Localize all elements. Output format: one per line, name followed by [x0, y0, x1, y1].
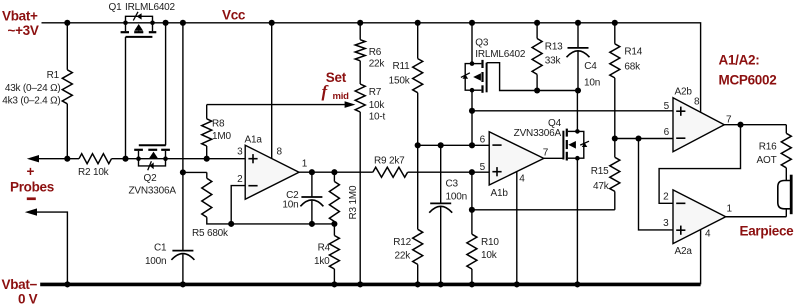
wire A1b pin7 to Q4 gate: [544, 157, 564, 159]
wire A1a pin8 to Vcc rail: [271, 23, 273, 159]
svg-text:10-t: 10-t: [369, 111, 386, 122]
svg-text:4: 4: [519, 173, 525, 184]
earpiece (speaker): [740, 168, 795, 239]
svg-text:1k0: 1k0: [314, 256, 330, 267]
junction R3 bottom / R4 top: [331, 221, 337, 227]
wire A2a pin4 to ground rail: [700, 229, 702, 284]
junction R7 / ground rail: [357, 281, 363, 287]
wire A2b pin6 line: [615, 138, 673, 140]
svg-text:Earpiece: Earpiece: [740, 224, 795, 239]
capacitor C1 100n: [145, 23, 194, 285]
svg-text:4: 4: [705, 229, 711, 240]
svg-text:1: 1: [302, 159, 308, 170]
junction R14 / Vcc rail: [612, 20, 618, 26]
svg-text:10k: 10k: [481, 250, 498, 261]
resistor R12 22k: [393, 145, 422, 284]
resistor R6 22k: [355, 23, 385, 70]
svg-text:Vbat−: Vbat−: [2, 277, 38, 292]
svg-text:1M0: 1M0: [212, 131, 231, 142]
junction C1 / ground rail: [180, 281, 186, 287]
capacitor C3 100n: [429, 145, 467, 284]
junction C2 top / output line: [309, 169, 315, 175]
svg-text:5: 5: [664, 101, 670, 112]
svg-text:R4: R4: [318, 243, 331, 254]
svg-text:22k: 22k: [394, 251, 411, 262]
svg-text:3: 3: [237, 147, 243, 158]
wire Q2 gate up to Vcc rail: [165, 23, 167, 146]
svg-text:33k: 33k: [545, 55, 562, 66]
wire feedback A2b output to A2a pin2: [659, 125, 740, 204]
svg-text:R15: R15: [591, 166, 609, 177]
svg-text:10n: 10n: [282, 200, 298, 211]
wire A1a output line: [299, 171, 373, 173]
svg-text:150k: 150k: [389, 76, 411, 87]
svg-text:22k: 22k: [369, 59, 386, 70]
svg-text:Probes: Probes: [10, 179, 54, 194]
wire Vcc top rail: [42, 23, 701, 113]
resistor R8 1M0: [202, 105, 232, 159]
svg-text:7: 7: [726, 114, 732, 125]
svg-text:7: 7: [543, 147, 549, 158]
svg-text:IRLML6402: IRLML6402: [475, 49, 526, 60]
svg-text:IRLML6402: IRLML6402: [125, 2, 176, 13]
svg-text:A2a: A2a: [675, 246, 693, 257]
wire R10/R15 node line: [472, 209, 615, 211]
svg-text:R6: R6: [369, 47, 382, 58]
svg-text:8: 8: [694, 96, 700, 107]
junction R1 bottom / probe line: [64, 156, 70, 162]
svg-text:R9 2k7: R9 2k7: [374, 156, 405, 167]
svg-text:R10: R10: [481, 237, 499, 248]
svg-text:R11: R11: [392, 61, 410, 72]
potentiometer R7 10k 10-turn: [355, 61, 385, 285]
svg-text:R8: R8: [212, 119, 225, 130]
wire R9 to A1b pin5: [408, 171, 490, 173]
svg-text:R1: R1: [47, 70, 60, 81]
junction Q4 / ground rail: [574, 281, 580, 287]
transistor Q4 ZVN3306A (N-MOSFET): [514, 118, 589, 160]
svg-text:2: 2: [663, 192, 669, 203]
junction R1 top / Vcc rail: [64, 20, 70, 26]
wire pin2 node riser to A1a pin2: [231, 186, 245, 224]
svg-text:C1: C1: [154, 242, 167, 253]
svg-text:R12: R12: [393, 237, 411, 248]
wire A1b pin6 line: [418, 144, 490, 146]
svg-text:1: 1: [727, 203, 733, 214]
junction R5 tee on Vcc drop wire: [180, 169, 186, 175]
svg-text:A1a: A1a: [245, 135, 263, 146]
svg-text:+: +: [27, 164, 35, 179]
junction R13 / Vcc rail: [534, 20, 540, 26]
transistor Q1 IRLML6402 (P-MOSFET): [109, 2, 176, 37]
svg-text:A1b: A1b: [491, 188, 509, 199]
junction A2a pin3 riser / pin6 line: [635, 135, 641, 141]
junction C4 / Vcc rail: [575, 20, 581, 26]
resistor R5 680k: [183, 172, 231, 239]
junction A1a pin8 / Vcc rail: [269, 20, 275, 26]
svg-text:6: 6: [664, 127, 670, 138]
svg-text:ZVN3306A: ZVN3306A: [514, 128, 562, 139]
junction C4 / gate node line: [575, 87, 581, 93]
capacitor C2 10n: [282, 172, 323, 224]
svg-text:A2b: A2b: [675, 86, 693, 97]
resistor R13 33k: [532, 23, 563, 91]
svg-text:Vcc: Vcc: [222, 7, 246, 22]
node Vbat- label: [2, 277, 38, 307]
junction R4 / ground rail: [331, 281, 337, 287]
resistor R2: [78, 154, 112, 179]
svg-text:mid: mid: [333, 91, 350, 102]
svg-text:Q2: Q2: [144, 173, 158, 184]
junction probe- / ground rail: [64, 281, 70, 287]
wire Q4 source to ground rail: [576, 158, 578, 284]
svg-text:Vbat+: Vbat+: [2, 9, 38, 24]
svg-text:R2 10k: R2 10k: [78, 167, 110, 178]
wire R7 wiper to R8 top: [207, 104, 345, 106]
svg-text:~+3V: ~+3V: [8, 23, 39, 38]
junction A2b output / feedback: [737, 122, 743, 128]
wire Vbat- bottom rail (ground): [40, 283, 700, 287]
resistor R9 2k7: [373, 156, 408, 178]
svg-text:R3 1M0: R3 1M0: [348, 185, 359, 219]
svg-text:43k (0–24 Ω): 43k (0–24 Ω): [5, 83, 61, 94]
svg-text:C3: C3: [446, 178, 459, 189]
junction R8 / probe line: [204, 156, 210, 162]
svg-text:4k3 (0–2.4 Ω): 4k3 (0–2.4 Ω): [2, 95, 60, 106]
junction C1 / Vcc rail: [180, 20, 186, 26]
wire Q3 gate to R13/C4 node: [487, 63, 578, 91]
transistor Q3 IRLML6402 (P-MOSFET): [461, 23, 526, 93]
svg-text:10k: 10k: [369, 100, 386, 111]
resistor R10 10k: [467, 210, 499, 285]
svg-text:AOT: AOT: [757, 155, 777, 166]
svg-text:Q1: Q1: [109, 2, 123, 13]
op-amp A1b: [489, 132, 544, 199]
svg-text:68k: 68k: [624, 62, 641, 73]
junction R13 / gate node line: [534, 87, 540, 93]
svg-text:100n: 100n: [446, 191, 467, 202]
junction R11/R12/A1b pin6 line: [415, 142, 421, 148]
resistor R16 AOT: [757, 125, 792, 168]
junction Q3 / Vcc rail: [469, 20, 475, 26]
resistor R11 150k: [389, 23, 423, 146]
svg-text:Q3: Q3: [475, 37, 489, 48]
junction R5 / A1a pin2 node: [228, 221, 234, 227]
svg-text:MCP6002: MCP6002: [719, 72, 777, 87]
resistor R15 47k: [591, 139, 620, 210]
svg-text:100n: 100n: [145, 256, 166, 267]
transistor Q2 ZVN3306A (N-MOSFET): [129, 145, 177, 196]
svg-text:3: 3: [663, 218, 669, 229]
wire probe+ line to R2: [38, 158, 80, 160]
resistor R14 68k: [610, 23, 643, 139]
op-amp A1a: [245, 135, 300, 200]
svg-text:0 V: 0 V: [18, 292, 38, 307]
svg-text:R7: R7: [369, 87, 382, 98]
svg-text:ZVN3306A: ZVN3306A: [129, 186, 177, 197]
svg-text:R14: R14: [624, 47, 642, 58]
wire R2 to A1a pin3: [112, 158, 246, 160]
junction Q3 drain / A2b pin5 line: [469, 108, 475, 114]
resistor R1: [2, 23, 72, 159]
node Vbat+ label: [2, 9, 39, 39]
resistor R3 1M0: [329, 172, 359, 224]
wire pin2 node line to C2/R3: [231, 223, 334, 225]
junction C3 / ground rail: [438, 281, 444, 287]
junction pin5 riser / pin5 line: [469, 169, 475, 175]
Set f_mid label: [322, 70, 350, 102]
Probes label: [10, 164, 54, 200]
junction R10/R15 node: [469, 207, 475, 213]
junction R12 / ground rail: [415, 281, 421, 287]
junction Q1 gate / R2 / Q2: [122, 156, 128, 162]
A1/A2 MCP6002 label: [719, 53, 777, 88]
probe + terminal arrow: [27, 155, 39, 162]
wire A1b pin4 to ground rail: [516, 172, 518, 285]
wiper arrow into R7: [345, 101, 356, 108]
svg-text:R13: R13: [545, 42, 563, 53]
wire Q3 drain to A2b pin5: [472, 110, 673, 112]
svg-text:A1/A2:: A1/A2:: [719, 53, 760, 68]
junction R14/R15/A2b pin6: [612, 135, 618, 141]
junction Q2 gate / Vcc rail: [163, 20, 169, 26]
svg-text:C4: C4: [584, 61, 597, 72]
svg-text:8: 8: [277, 146, 283, 157]
wire A1b pin5 riser down to R10/R15 node: [471, 172, 473, 210]
op-amp A2a: [673, 190, 726, 257]
resistor R4 1k0: [314, 224, 339, 285]
wire A2a output to earpiece: [726, 216, 787, 218]
junction C2 bottom / pin2 node: [309, 221, 315, 227]
wire probe- to ground rail: [36, 212, 68, 284]
op-amp A2b: [673, 86, 724, 151]
svg-text:2: 2: [237, 174, 243, 185]
svg-text:6: 6: [480, 134, 486, 145]
probe - terminal arrow: [25, 208, 37, 215]
svg-text:R5 680k: R5 680k: [192, 228, 229, 239]
wire Q3 drain down to A1b pin6 line: [471, 90, 473, 145]
svg-text:R16: R16: [759, 141, 777, 152]
wire riser down to A2a pin3: [639, 139, 674, 230]
svg-text:10n: 10n: [584, 77, 600, 88]
junction R3 top / output line: [331, 169, 337, 175]
svg-text:47k: 47k: [593, 181, 610, 192]
junction R10 / ground rail: [469, 281, 475, 287]
capacitor C4 10n: [567, 23, 601, 91]
wire Q1 gate down to probe line: [125, 37, 127, 159]
svg-text:Set: Set: [326, 70, 347, 85]
junction R6 / Vcc rail: [357, 20, 363, 26]
wire A2b output line: [724, 124, 786, 126]
wire C4 node down to Q4: [576, 91, 578, 132]
junction A1b pin4 / ground rail: [514, 281, 520, 287]
junction Q3 drain / pin6 line: [469, 142, 475, 148]
junction R11 / Vcc rail: [415, 20, 421, 26]
junction C3 / pin6 line: [438, 142, 444, 148]
svg-text:5: 5: [480, 162, 486, 173]
